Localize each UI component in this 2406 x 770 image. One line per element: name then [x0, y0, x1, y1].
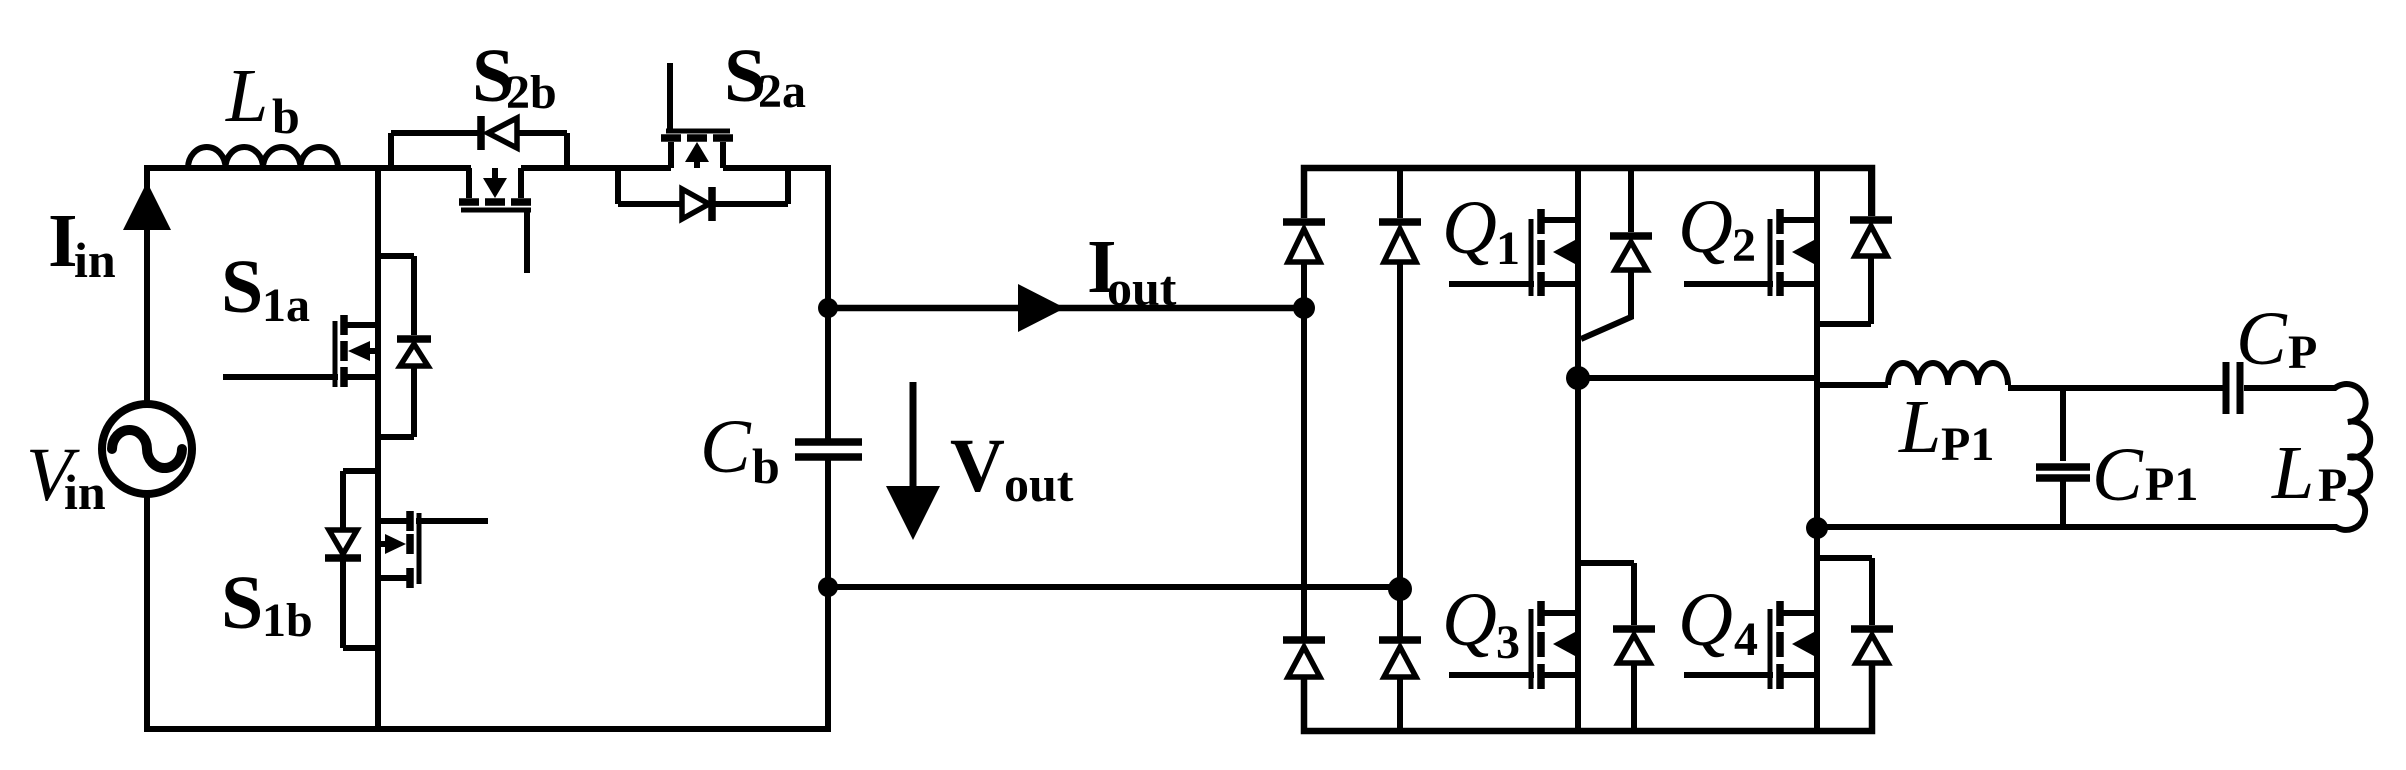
wire: top rail between S2b and S2a: [521, 165, 671, 171]
diode V1 triangle: [1288, 229, 1320, 262]
transistor S2a channel contacts: [661, 134, 733, 142]
svg-text:P1: P1: [2145, 458, 2198, 511]
wire lower dc link: [828, 584, 1400, 590]
wire: left vertical top + top rail to S2b drain: [147, 168, 471, 404]
svg-text:C: C: [2236, 297, 2288, 381]
transistor Q3 channel contacts: [1537, 601, 1545, 689]
svg-text:L: L: [2271, 431, 2314, 515]
node: output negative: [818, 577, 838, 597]
wire: left vertical bottom + bottom rail + up to C_b bottom plate: [147, 460, 828, 729]
svg-text:Q: Q: [1442, 186, 1497, 270]
diode S1b triangle: [329, 530, 357, 554]
diode S2a triangle: [682, 189, 709, 219]
diode Q4 cathode bar: [1851, 625, 1893, 633]
diode S1a cathode bar: [397, 335, 431, 343]
diode S2b cathode bar: [477, 116, 485, 150]
transistor Q1 channel contacts: [1537, 209, 1545, 296]
transistor Q1 drain stub: [1538, 217, 1578, 223]
transistor Q3 bulk arrow: [1553, 632, 1575, 656]
arrow I_in head: [123, 182, 171, 230]
diode Q2 cathode bar: [1850, 216, 1892, 224]
diode Q3 triangle: [1618, 635, 1650, 663]
transistor Q2 source stub: [1777, 281, 1817, 287]
wire C_P to L_P: [2244, 385, 2322, 391]
transistor S2b gate bar: [461, 208, 531, 213]
diode Q1 triangle: [1615, 242, 1647, 270]
transistor S2a right contact stub: [720, 142, 726, 168]
bridge bottom rail: [1304, 663, 1872, 731]
wire to L_P1: [1817, 382, 1888, 388]
transistor S1a source stub: [341, 374, 378, 380]
transistor Q1 bulk arrow: [1553, 240, 1575, 264]
transistor Q3 drain stub: [1538, 610, 1578, 616]
diode S2b branch: [391, 133, 567, 168]
transistor S2b gate lead: [524, 212, 530, 273]
wire: C_b top vertical + top rail back to S2a source: [723, 168, 828, 439]
diode V4 triangle: [1384, 647, 1416, 677]
transistor S1b bulk arrow: [385, 534, 406, 554]
inverter leg Q2/Q4: [1814, 168, 1820, 731]
svg-text:P: P: [2318, 459, 2347, 512]
wire bridge output bottom: [1817, 524, 2322, 530]
wire I_out: [828, 305, 1304, 312]
diode Q4 triangle: [1856, 635, 1888, 663]
node rectifier input bottom: [1388, 577, 1412, 601]
capacitor C_P right plate: [2237, 362, 2244, 414]
capacitor C_P1 branch bottom: [2060, 481, 2066, 527]
transistor Q4 channel contacts: [1776, 601, 1784, 689]
transistor Q1 gate lead: [1449, 281, 1534, 287]
svg-text:C: C: [2092, 433, 2144, 517]
diode S1a body diode branch: [378, 256, 414, 437]
svg-text:out: out: [1004, 456, 1074, 512]
svg-text:b: b: [272, 88, 300, 144]
transistor S1a channel contacts: [340, 315, 348, 387]
node bridge mid left: [1566, 366, 1590, 390]
svg-text:Q: Q: [1678, 578, 1733, 662]
transistor Q2 drain stub: [1777, 217, 1817, 223]
transistor Q4 gate bar: [1768, 609, 1773, 689]
diode V3 triangle: [1288, 647, 1320, 677]
capacitor C_P left plate: [2223, 362, 2230, 414]
transistor Q3 gate bar: [1529, 609, 1534, 689]
transistor Q2 channel contacts: [1776, 209, 1784, 296]
diode Q1 body diode: [1581, 168, 1631, 339]
transistor Q4 drain stub: [1777, 610, 1817, 616]
diode Q4 body diode: [1817, 558, 1872, 731]
svg-text:1a: 1a: [262, 279, 310, 332]
transistor S2a gate lead: [667, 63, 673, 129]
diode Q3 cathode bar: [1613, 625, 1655, 633]
svg-text:1: 1: [1496, 222, 1520, 275]
node: output positive: [818, 298, 838, 318]
transistor S2a gate bar: [666, 129, 730, 134]
transistor S1b channel contacts: [406, 511, 414, 588]
svg-text:P: P: [2288, 326, 2317, 379]
diode Q2 triangle: [1855, 226, 1887, 256]
inductor L_b: [188, 147, 338, 168]
inverter leg Q1/Q3: [1575, 168, 1581, 731]
diode Q1 cathode bar: [1610, 232, 1652, 240]
transistor Q2 gate bar: [1768, 219, 1773, 296]
diode V1 cathode bar: [1283, 218, 1325, 226]
transistor Q3 gate lead: [1449, 672, 1534, 678]
transistor S2a left contact stub: [668, 142, 674, 168]
inductor L_P1: [1888, 363, 2008, 385]
diode S1a triangle: [400, 344, 428, 366]
svg-text:in: in: [74, 232, 116, 288]
transistor Q1 source stub: [1538, 281, 1578, 287]
svg-text:L: L: [1898, 385, 1941, 469]
transistor Q1 gate bar: [1529, 219, 1534, 296]
diode S2b triangle: [488, 118, 517, 148]
svg-text:P1: P1: [1941, 418, 1994, 471]
node rectifier input top: [1293, 297, 1315, 319]
diode V2 triangle: [1384, 229, 1416, 262]
transistor Q4 gate lead: [1684, 672, 1773, 678]
svg-text:V: V: [950, 424, 1005, 508]
svg-text:out: out: [1107, 260, 1177, 316]
rectifier leg 2: [1397, 168, 1403, 731]
svg-text:C: C: [700, 405, 752, 489]
transistor Q3 source stub: [1538, 672, 1578, 678]
transistor S2b left contact stub: [466, 168, 472, 198]
svg-text:3: 3: [1496, 616, 1520, 669]
diode Q3 body diode: [1578, 563, 1634, 731]
transistor S1b source stub: [378, 575, 407, 581]
transistor S1b drain stub: [378, 518, 407, 524]
capacitor C_P1 top plate: [2036, 463, 2090, 471]
svg-text:Q: Q: [1678, 185, 1733, 269]
svg-text:S: S: [221, 245, 263, 329]
transistor S2b right contact stub: [518, 168, 524, 198]
transistor S2a bulk arrow: [685, 142, 709, 162]
svg-text:L: L: [225, 54, 268, 138]
diode V4 cathode bar: [1379, 636, 1421, 644]
transistor S2b bulk arrow: [483, 178, 507, 198]
source V_in: [102, 404, 192, 494]
svg-text:4: 4: [1734, 613, 1758, 666]
wire bridge output top: [1578, 375, 1817, 381]
capacitor C_P1 bottom plate: [2036, 474, 2090, 482]
svg-text:b: b: [752, 438, 780, 494]
transistor Q4 source stub: [1777, 672, 1817, 678]
inductor L_P coil: [2322, 384, 2370, 530]
transistor S1b gate bar: [417, 513, 422, 584]
diode S1b cathode bar: [325, 554, 361, 562]
transistor S1a drain stub: [341, 322, 378, 328]
transistor S1a bulk arrow: [348, 341, 370, 361]
diode S2a branch: [618, 168, 788, 204]
diode S2a cathode bar: [708, 187, 716, 221]
arrow V_out: [910, 382, 917, 492]
capacitor C_b top plate: [795, 438, 862, 446]
svg-text:Q: Q: [1442, 578, 1497, 662]
diode V3 cathode bar: [1283, 636, 1325, 644]
transistor S1a gate bar: [333, 321, 338, 387]
transistor S1a gate lead: [223, 374, 338, 380]
arrow I_out head: [1018, 284, 1065, 332]
capacitor C_b bottom plate: [795, 453, 862, 461]
diode S1b body diode branch: [343, 471, 378, 648]
capacitor C_P1 branch top: [2060, 388, 2066, 461]
transistor Q4 bulk arrow: [1792, 632, 1814, 656]
rectifier leg 1 middle: [1301, 263, 1307, 637]
bridge top rail: [1304, 168, 1872, 218]
svg-text:S: S: [221, 561, 263, 645]
node bridge mid right: [1806, 517, 1828, 539]
diode V2 cathode bar: [1379, 218, 1421, 226]
svg-text:in: in: [64, 464, 106, 520]
svg-text:2b: 2b: [506, 66, 557, 119]
svg-text:1b: 1b: [262, 594, 313, 647]
svg-text:2a: 2a: [758, 65, 806, 118]
transistor Q2 gate lead: [1684, 281, 1773, 287]
transistor S1a main vertical: [375, 168, 381, 729]
transistor Q2 bulk arrow: [1792, 240, 1814, 264]
transistor S1b gate lead: [416, 518, 488, 524]
transistor S2b channel contacts: [459, 198, 531, 206]
wire L_P1 to C_P: [2008, 385, 2224, 391]
diode Q2 body diode: [1817, 168, 1871, 324]
svg-text:2: 2: [1732, 219, 1756, 272]
